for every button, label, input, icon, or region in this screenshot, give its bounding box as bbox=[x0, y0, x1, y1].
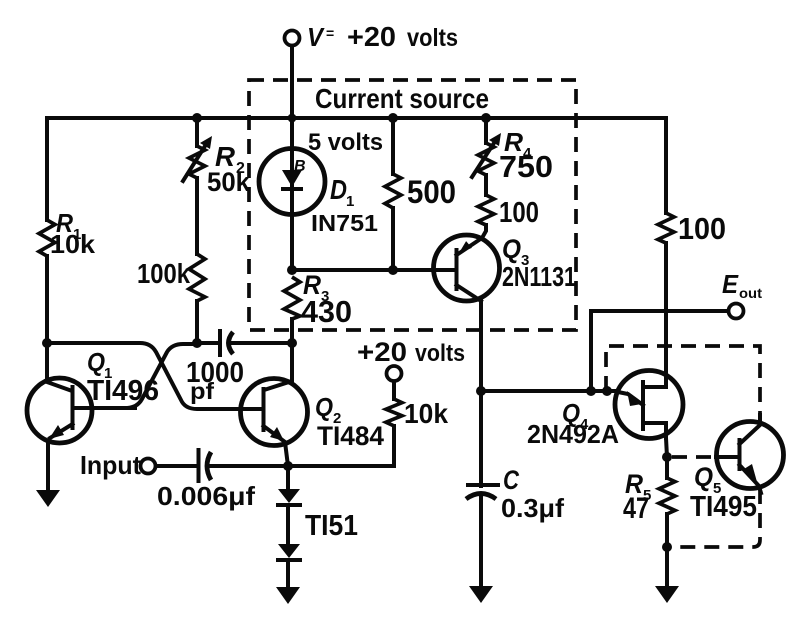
svg-text:100k: 100k bbox=[137, 258, 190, 289]
label 500 bbox=[407, 174, 456, 210]
node bus/R4 bbox=[481, 113, 491, 123]
ground under C bbox=[469, 586, 493, 603]
label +20 volts bbox=[357, 337, 465, 367]
svg-text:volts: volts bbox=[407, 24, 458, 52]
svg-text:1: 1 bbox=[346, 193, 354, 210]
node bus/500 bbox=[388, 113, 398, 123]
terminal Input bbox=[141, 459, 156, 474]
svg-text:IN751: IN751 bbox=[311, 210, 378, 236]
wire Q3 collector down bbox=[479, 301, 483, 486]
wire bus down to 100 right bbox=[664, 118, 668, 213]
svg-text:volts: volts bbox=[415, 340, 465, 367]
wire cross coupling Q1 collector to Q2 base bbox=[47, 343, 262, 409]
svg-text:TI495: TI495 bbox=[690, 491, 757, 523]
label R1 10k bbox=[50, 208, 96, 259]
resistor 500 bbox=[385, 174, 401, 208]
svg-text:Current source: Current source bbox=[315, 83, 489, 114]
transistor Q2 bbox=[241, 343, 308, 466]
node bus/R2 bbox=[192, 113, 202, 123]
label TI51 bbox=[305, 510, 358, 542]
label D1 1N751 bbox=[311, 174, 378, 236]
label Q4 2N492A bbox=[527, 398, 619, 449]
label 10k mid bbox=[404, 398, 448, 429]
resistor 100k bbox=[189, 254, 205, 301]
svg-text:47: 47 bbox=[623, 492, 649, 525]
svg-text:out: out bbox=[739, 285, 762, 301]
svg-text:B: B bbox=[294, 158, 306, 175]
wire R1 to Q1 collector bbox=[45, 256, 49, 378]
label V = +20 volts bbox=[307, 21, 458, 52]
unijunction transistor Q4 bbox=[615, 371, 683, 439]
wire D1 to node bbox=[290, 214, 294, 270]
wire top bus bbox=[47, 116, 666, 120]
svg-text:TI51: TI51 bbox=[305, 510, 358, 542]
label C 0.3uf bbox=[501, 465, 564, 523]
svg-text:Input: Input bbox=[80, 450, 141, 480]
node Eout drop bbox=[586, 386, 596, 396]
ground under R5 bbox=[655, 586, 679, 603]
svg-text:100: 100 bbox=[499, 197, 539, 229]
label Input bbox=[80, 450, 141, 480]
svg-text:10k: 10k bbox=[50, 229, 96, 259]
node Q2 emitter bbox=[283, 461, 293, 471]
svg-text:430: 430 bbox=[301, 294, 352, 329]
svg-text:pf: pf bbox=[190, 378, 214, 404]
node R3 / capacitor / Q2 collector bbox=[287, 338, 297, 348]
svg-text:2N492A: 2N492A bbox=[527, 419, 619, 449]
wire bus down to 500 bbox=[391, 118, 395, 174]
ground under TI51 bbox=[276, 587, 300, 604]
svg-text:TI484: TI484 bbox=[317, 421, 384, 451]
wire bus down to R1 bbox=[45, 118, 49, 220]
label Q2 TI484 bbox=[315, 392, 384, 451]
svg-text:50k: 50k bbox=[207, 167, 251, 197]
transistor Q1 bbox=[27, 378, 135, 490]
svg-text:E: E bbox=[722, 269, 739, 299]
transistor Q5 bbox=[716, 415, 784, 493]
transistor Q3 bbox=[434, 235, 500, 301]
wire R5 down bbox=[665, 514, 669, 586]
node bus/D1 bbox=[288, 114, 297, 123]
wire bus down to R4 bbox=[484, 118, 488, 143]
label 5 volts bbox=[308, 129, 383, 156]
node R5 top bbox=[662, 452, 672, 462]
capacitor 1000 pf bbox=[220, 331, 233, 355]
label Current source bbox=[315, 83, 489, 114]
svg-text:0.006μf: 0.006μf bbox=[157, 481, 255, 511]
wire input to capacitor bbox=[156, 464, 198, 468]
capacitor C bbox=[466, 485, 498, 499]
svg-text:C: C bbox=[503, 465, 519, 495]
svg-text:100: 100 bbox=[678, 211, 726, 246]
wire 10k to terminal bbox=[392, 381, 396, 399]
label R4 750 bbox=[499, 127, 553, 184]
wire R3 down to coupling node bbox=[290, 319, 294, 343]
svg-text:5 volts: 5 volts bbox=[308, 129, 383, 156]
wire bus down to R2 bbox=[195, 118, 199, 146]
capacitor 0.006 uf bbox=[199, 450, 212, 481]
diode TI51 lower bbox=[278, 505, 300, 587]
diode TI51 upper bbox=[278, 466, 300, 505]
node Q1 collector / coupling bbox=[42, 338, 52, 348]
node R5 bottom bbox=[662, 542, 672, 552]
wire R2 to 100k bbox=[195, 178, 199, 254]
wire 100 down to Q4 base-two bbox=[664, 243, 668, 372]
svg-text:0.3μf: 0.3μf bbox=[501, 493, 564, 523]
node 500/base wire bbox=[388, 265, 398, 275]
wire 100 to Q3 emitter bbox=[482, 225, 486, 238]
terminal +20 volts bbox=[387, 366, 402, 381]
label Q5 TI495 bbox=[690, 462, 757, 523]
svg-text:2N1131: 2N1131 bbox=[502, 261, 576, 292]
resistor R5 bbox=[659, 478, 675, 514]
label Eout bbox=[722, 269, 762, 301]
svg-text:Q: Q bbox=[87, 347, 105, 377]
label R3 430 bbox=[301, 270, 352, 329]
svg-text:D: D bbox=[330, 174, 347, 205]
node dashed drop bbox=[602, 386, 612, 396]
wire up to 10k bbox=[392, 426, 396, 466]
resistor R3 bbox=[284, 277, 300, 319]
wire node to capacitor bbox=[197, 341, 220, 345]
wire cross coupling Q1 base to capacitor node bbox=[74, 344, 197, 408]
label 100 bbox=[499, 197, 539, 229]
resistor R1 bbox=[39, 220, 55, 256]
ground under Q1 bbox=[36, 490, 60, 507]
svg-text:10k: 10k bbox=[404, 398, 448, 429]
wire emitter line to Q4 bbox=[481, 389, 618, 393]
svg-text:=: = bbox=[326, 25, 334, 41]
resistor 100 right bbox=[658, 213, 674, 243]
wire capacitor to node bbox=[231, 341, 292, 345]
node D1/R3/base wire bbox=[287, 265, 297, 275]
dashed box around Q5 bbox=[606, 346, 760, 547]
wire V+ down to D1 bbox=[290, 46, 294, 149]
wire Eout tap bbox=[591, 311, 728, 391]
node collector / pulse wire bbox=[476, 386, 486, 396]
svg-text:Q: Q bbox=[315, 392, 333, 422]
zener diode D1 bbox=[259, 149, 325, 215]
supply terminal V+ bbox=[285, 31, 300, 46]
svg-text:Q: Q bbox=[694, 462, 713, 492]
svg-text:Q: Q bbox=[502, 234, 521, 264]
terminal Eout bbox=[729, 304, 744, 319]
svg-text:750: 750 bbox=[499, 149, 553, 184]
wire C down to ground bbox=[479, 496, 483, 586]
label 1000 pf bbox=[186, 357, 244, 404]
wire R4 to 100 bbox=[484, 175, 488, 195]
wire 500 to base wire bbox=[391, 208, 395, 270]
svg-text:+20: +20 bbox=[357, 337, 407, 367]
label 100 right bbox=[678, 211, 726, 246]
svg-text:V: V bbox=[307, 22, 325, 52]
svg-text:+20: +20 bbox=[347, 21, 396, 52]
resistor 10k bbox=[386, 399, 402, 426]
label Q1 TI496 bbox=[87, 347, 159, 407]
wire node to Q3 base bbox=[292, 268, 436, 272]
svg-text:500: 500 bbox=[407, 174, 456, 210]
wire 100k down to node bbox=[195, 301, 199, 343]
label R2 50k bbox=[207, 141, 251, 197]
wire Q4 base-one down bbox=[666, 438, 667, 457]
label 0.006 uf bbox=[157, 481, 255, 511]
dashed current source box bbox=[249, 80, 576, 330]
resistor 100 bbox=[478, 195, 494, 225]
label R5 47 bbox=[623, 469, 651, 525]
wire capacitor to Q2 emitter node bbox=[208, 464, 394, 468]
dashed wire to Q5 base bbox=[672, 455, 716, 459]
wire to R5 bbox=[665, 457, 669, 478]
label Q3 2N1131 bbox=[502, 234, 576, 292]
variable resistor R4 bbox=[472, 133, 501, 177]
node 100k / capacitor / Q1 base bbox=[192, 338, 202, 348]
label 100k bbox=[137, 258, 190, 289]
variable resistor R2 bbox=[183, 136, 212, 181]
